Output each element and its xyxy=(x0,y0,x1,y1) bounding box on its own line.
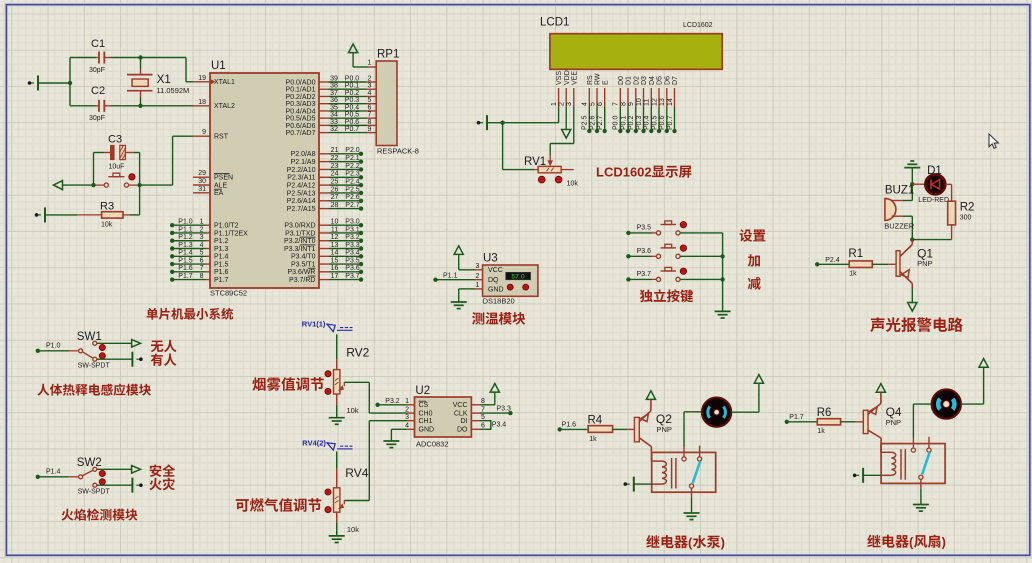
svg-text:P1.7: P1.7 xyxy=(789,414,804,421)
svg-text:19: 19 xyxy=(198,75,206,82)
svg-text:C2: C2 xyxy=(91,85,105,97)
svg-text:XTAL2: XTAL2 xyxy=(214,103,235,110)
svg-text:LED-RED: LED-RED xyxy=(918,197,949,204)
svg-text:BUZ1: BUZ1 xyxy=(885,185,914,197)
svg-text:SW2: SW2 xyxy=(77,457,102,469)
svg-text:3: 3 xyxy=(368,83,372,90)
svg-text:18: 18 xyxy=(198,99,206,106)
svg-text:P3.1/TXD: P3.1/TXD xyxy=(285,230,315,237)
svg-text:P0.2: P0.2 xyxy=(628,115,635,130)
svg-text:1k: 1k xyxy=(817,428,825,435)
svg-text:P1.6: P1.6 xyxy=(178,265,193,272)
svg-text:D7: D7 xyxy=(672,76,679,85)
svg-text:P1.6: P1.6 xyxy=(214,269,229,276)
svg-text:P1.4: P1.4 xyxy=(214,254,229,261)
svg-text:D6: D6 xyxy=(664,76,671,85)
svg-text:P2.3/A11: P2.3/A11 xyxy=(287,175,315,182)
svg-text:10k: 10k xyxy=(101,222,113,229)
svg-text:26: 26 xyxy=(331,186,339,193)
svg-text:4: 4 xyxy=(405,423,409,430)
svg-text:10uF: 10uF xyxy=(109,164,125,171)
svg-text:11: 11 xyxy=(331,226,338,233)
svg-text:P1.0: P1.0 xyxy=(178,219,193,226)
svg-text:CLK: CLK xyxy=(454,411,468,418)
svg-text:5: 5 xyxy=(589,102,596,106)
svg-text:U2: U2 xyxy=(415,385,430,397)
svg-text:9: 9 xyxy=(628,102,635,106)
svg-text:2: 2 xyxy=(368,75,372,82)
svg-text:23: 23 xyxy=(331,163,339,170)
svg-text:R1: R1 xyxy=(848,248,863,260)
svg-text:P2.7/A15: P2.7/A15 xyxy=(287,206,316,213)
svg-text:P0.6/AD6: P0.6/AD6 xyxy=(286,123,316,130)
svg-text:P2.3: P2.3 xyxy=(345,171,360,178)
svg-text:P0.7: P0.7 xyxy=(345,126,360,133)
svg-text:10k: 10k xyxy=(567,181,579,188)
svg-text:28: 28 xyxy=(331,202,339,209)
svg-text:P3.7: P3.7 xyxy=(637,271,652,278)
svg-text:XTAL1: XTAL1 xyxy=(214,79,235,86)
svg-text:P0.4: P0.4 xyxy=(644,115,651,130)
svg-text:13: 13 xyxy=(659,98,666,106)
svg-text:R6: R6 xyxy=(817,407,832,419)
svg-text:P3.6/WR: P3.6/WR xyxy=(287,269,315,276)
svg-text:30pF: 30pF xyxy=(89,67,105,74)
svg-text:29: 29 xyxy=(198,170,206,177)
svg-text:P1.3: P1.3 xyxy=(178,242,193,249)
svg-text:32: 32 xyxy=(330,126,338,133)
svg-text:25: 25 xyxy=(331,179,339,186)
svg-text:30pF: 30pF xyxy=(89,115,105,122)
svg-text:PNP: PNP xyxy=(886,418,901,427)
svg-text:P2.5: P2.5 xyxy=(582,115,589,130)
svg-text:P3.0/RXD: P3.0/RXD xyxy=(284,223,315,230)
svg-text:RV4(2): RV4(2) xyxy=(302,438,326,447)
svg-text:BUZZER: BUZZER xyxy=(884,222,915,231)
svg-text:38: 38 xyxy=(330,83,338,90)
svg-text:P1.1: P1.1 xyxy=(443,273,458,280)
svg-text:8: 8 xyxy=(368,119,372,126)
svg-text:D2: D2 xyxy=(633,76,640,85)
svg-text:2: 2 xyxy=(476,273,480,280)
svg-text:): ) xyxy=(942,535,946,550)
svg-text:35: 35 xyxy=(330,104,338,111)
svg-text:P0.5/AD5: P0.5/AD5 xyxy=(286,116,316,123)
svg-text:P3.4: P3.4 xyxy=(345,250,360,257)
svg-text:3: 3 xyxy=(566,102,573,106)
svg-text:3: 3 xyxy=(405,414,409,421)
svg-text:10: 10 xyxy=(636,98,643,106)
svg-text:P3.2: P3.2 xyxy=(385,398,400,405)
svg-text:21: 21 xyxy=(331,147,339,154)
svg-text:P1.6: P1.6 xyxy=(562,421,577,428)
svg-text:P2.6: P2.6 xyxy=(345,194,360,201)
svg-text:RESPACK-8: RESPACK-8 xyxy=(377,147,419,156)
svg-text:PNP: PNP xyxy=(917,259,932,268)
svg-text:LCD1602: LCD1602 xyxy=(596,165,652,180)
svg-text:P3.1: P3.1 xyxy=(345,226,360,233)
svg-text:P0.6: P0.6 xyxy=(659,115,666,130)
svg-text:2: 2 xyxy=(200,226,204,233)
svg-text:P0.7/AD7: P0.7/AD7 xyxy=(286,130,316,137)
svg-text:P0.1: P0.1 xyxy=(345,83,360,90)
svg-text:P2.7: P2.7 xyxy=(597,115,604,130)
svg-text:3: 3 xyxy=(200,234,204,241)
svg-text:P3.7: P3.7 xyxy=(345,273,360,280)
svg-text:PNP: PNP xyxy=(657,425,672,434)
svg-text:D0: D0 xyxy=(618,76,625,85)
svg-text:P3.6: P3.6 xyxy=(345,265,360,272)
svg-text:P0.2: P0.2 xyxy=(345,90,360,97)
svg-text:VCC: VCC xyxy=(453,402,468,409)
svg-text:CS: CS xyxy=(419,402,429,409)
svg-text:10k: 10k xyxy=(347,406,359,415)
svg-text:P3.4/T0: P3.4/T0 xyxy=(291,254,316,261)
svg-text:6: 6 xyxy=(200,257,204,264)
svg-text:D4: D4 xyxy=(649,76,656,85)
svg-text:(: ( xyxy=(909,535,914,550)
svg-text:(: ( xyxy=(688,535,693,550)
svg-text:5: 5 xyxy=(368,97,372,104)
svg-text:P1.2: P1.2 xyxy=(178,234,193,241)
svg-text:P1.3: P1.3 xyxy=(214,246,229,253)
svg-text:D1: D1 xyxy=(626,76,633,85)
svg-text:14: 14 xyxy=(667,98,674,106)
svg-text:P3.5: P3.5 xyxy=(637,225,652,232)
svg-text:EA: EA xyxy=(214,190,224,197)
svg-text:4: 4 xyxy=(582,102,589,106)
svg-text:P1.7: P1.7 xyxy=(178,273,193,280)
svg-text:13: 13 xyxy=(331,242,339,249)
svg-text:P0.0: P0.0 xyxy=(613,115,620,130)
svg-text:P3.3: P3.3 xyxy=(497,406,512,413)
svg-text:VDD: VDD xyxy=(564,70,571,85)
svg-text:ADC0832: ADC0832 xyxy=(416,439,449,448)
svg-text:RV4: RV4 xyxy=(345,466,368,480)
svg-text:57.0: 57.0 xyxy=(511,274,524,281)
svg-text:SW1: SW1 xyxy=(77,331,102,343)
svg-text:6: 6 xyxy=(597,102,604,106)
svg-text:7: 7 xyxy=(613,102,620,106)
svg-text:U3: U3 xyxy=(483,253,498,265)
svg-text:4: 4 xyxy=(200,242,204,249)
svg-text:P3.7/RD: P3.7/RD xyxy=(289,277,315,284)
svg-text:33: 33 xyxy=(330,119,338,126)
svg-text:1: 1 xyxy=(368,60,372,67)
svg-text:E: E xyxy=(602,80,609,85)
svg-text:GND: GND xyxy=(419,427,435,434)
svg-text:P3.4: P3.4 xyxy=(492,422,507,429)
svg-text:P2.2: P2.2 xyxy=(345,163,360,170)
svg-text:10: 10 xyxy=(331,219,339,226)
svg-text:): ) xyxy=(721,535,725,550)
svg-text:STC89C52: STC89C52 xyxy=(210,289,247,298)
svg-text:24: 24 xyxy=(331,171,339,178)
svg-text:P2.6: P2.6 xyxy=(589,115,596,130)
svg-text:6: 6 xyxy=(368,104,372,111)
svg-text:P0.5: P0.5 xyxy=(345,112,360,119)
svg-text:12: 12 xyxy=(651,98,658,106)
svg-text:P1.5: P1.5 xyxy=(178,257,193,264)
svg-text:RV2: RV2 xyxy=(346,346,369,360)
svg-text:RV1: RV1 xyxy=(524,156,546,168)
svg-text:P3.2/INT0: P3.2/INT0 xyxy=(284,238,316,245)
svg-text:P0.6: P0.6 xyxy=(345,119,360,126)
svg-text:5: 5 xyxy=(481,414,485,421)
svg-text:X1: X1 xyxy=(157,74,171,86)
svg-text:1: 1 xyxy=(476,282,480,289)
svg-text:P2.0/A8: P2.0/A8 xyxy=(291,151,316,158)
svg-text:DI: DI xyxy=(461,418,468,425)
svg-text:C3: C3 xyxy=(108,134,122,146)
svg-text:LCD1602: LCD1602 xyxy=(683,22,713,29)
svg-text:CH0: CH0 xyxy=(419,411,433,418)
svg-text:DQ: DQ xyxy=(488,277,499,284)
svg-text:P0.3: P0.3 xyxy=(345,97,360,104)
svg-text:P2.4: P2.4 xyxy=(345,179,360,186)
svg-text:R3: R3 xyxy=(100,201,114,213)
svg-text:P1.1: P1.1 xyxy=(178,226,193,233)
svg-text:P1.0/T2: P1.0/T2 xyxy=(214,223,239,230)
svg-text:SW-SPDT: SW-SPDT xyxy=(78,363,111,370)
svg-text:1: 1 xyxy=(200,219,204,226)
svg-text:DO: DO xyxy=(457,427,468,434)
svg-text:P1.2: P1.2 xyxy=(214,238,229,245)
svg-text:P2.1: P2.1 xyxy=(345,155,360,162)
svg-text:P0.7: P0.7 xyxy=(667,115,674,130)
svg-text:P3.3: P3.3 xyxy=(345,242,360,249)
svg-text:11.0592M: 11.0592M xyxy=(157,86,190,95)
svg-text:P3.0: P3.0 xyxy=(345,219,360,226)
svg-text:36: 36 xyxy=(330,97,338,104)
svg-text:P2.1/A9: P2.1/A9 xyxy=(291,159,316,166)
svg-text:P1.7: P1.7 xyxy=(214,277,229,284)
svg-text:1: 1 xyxy=(405,398,409,405)
svg-text:P0.4/AD4: P0.4/AD4 xyxy=(286,108,316,115)
svg-text:34: 34 xyxy=(330,112,338,119)
svg-text:RST: RST xyxy=(214,134,229,141)
svg-text:15: 15 xyxy=(331,257,339,264)
svg-text:31: 31 xyxy=(198,186,206,193)
svg-text:P2.0: P2.0 xyxy=(345,147,360,154)
svg-text:P3.5/T1: P3.5/T1 xyxy=(291,261,316,268)
svg-text:PSEN: PSEN xyxy=(214,175,233,182)
svg-text:P0.5: P0.5 xyxy=(651,115,658,130)
svg-text:P1.5: P1.5 xyxy=(214,261,229,268)
svg-text:9: 9 xyxy=(202,129,206,136)
svg-text:14: 14 xyxy=(331,250,339,257)
svg-text:7: 7 xyxy=(481,406,485,413)
svg-text:RP1: RP1 xyxy=(377,49,399,61)
svg-text:R2: R2 xyxy=(960,202,975,214)
svg-text:P2.4/A12: P2.4/A12 xyxy=(287,183,316,190)
svg-text:27: 27 xyxy=(331,194,339,201)
svg-text:2: 2 xyxy=(559,102,566,106)
svg-text:VSS: VSS xyxy=(556,71,563,85)
svg-text:8: 8 xyxy=(481,398,485,405)
svg-text:16: 16 xyxy=(331,265,339,272)
svg-text:P0.4: P0.4 xyxy=(345,104,360,111)
svg-text:1k: 1k xyxy=(589,436,597,443)
svg-text:RW: RW xyxy=(595,73,602,85)
svg-text:D1: D1 xyxy=(927,165,942,177)
svg-text:GND: GND xyxy=(488,286,504,293)
svg-text:VCC: VCC xyxy=(488,267,503,274)
svg-text:VEE: VEE xyxy=(571,71,578,85)
svg-text:P0.1/AD1: P0.1/AD1 xyxy=(286,87,316,94)
svg-text:8: 8 xyxy=(620,102,627,106)
svg-text:P0.0/AD0: P0.0/AD0 xyxy=(286,79,316,86)
svg-text:37: 37 xyxy=(330,90,338,97)
svg-text:39: 39 xyxy=(330,75,338,82)
svg-text:P3.2: P3.2 xyxy=(345,234,360,241)
svg-text:9: 9 xyxy=(368,126,372,133)
svg-text:SW-SPDT: SW-SPDT xyxy=(78,489,111,496)
svg-text:8: 8 xyxy=(200,273,204,280)
svg-text:7: 7 xyxy=(368,112,372,119)
svg-text:DS18B20: DS18B20 xyxy=(483,297,515,306)
svg-text:P2.5: P2.5 xyxy=(345,186,360,193)
svg-text:3: 3 xyxy=(476,263,480,270)
svg-text:P3.3/INT1: P3.3/INT1 xyxy=(284,246,316,253)
svg-text:P2.7: P2.7 xyxy=(345,202,360,209)
svg-text:P0.3/AD3: P0.3/AD3 xyxy=(286,101,316,108)
svg-text:C1: C1 xyxy=(91,38,105,50)
svg-text:30: 30 xyxy=(198,178,206,185)
svg-text:P1.4: P1.4 xyxy=(178,250,193,257)
svg-text:D3: D3 xyxy=(641,76,648,85)
svg-text:11: 11 xyxy=(644,99,651,106)
svg-text:P2.4: P2.4 xyxy=(825,257,840,264)
svg-text:7: 7 xyxy=(200,265,204,272)
svg-text:P1.1/T2EX: P1.1/T2EX xyxy=(214,230,248,237)
svg-text:U1: U1 xyxy=(211,60,226,72)
svg-text:5: 5 xyxy=(200,250,204,257)
svg-text:P0.0: P0.0 xyxy=(345,75,360,82)
svg-text:P2.6/A14: P2.6/A14 xyxy=(287,198,316,205)
svg-text:17: 17 xyxy=(331,273,339,280)
svg-text:10k: 10k xyxy=(347,525,359,534)
svg-text:22: 22 xyxy=(331,155,339,162)
svg-text:RV1(1): RV1(1) xyxy=(302,320,326,329)
svg-text:P3.5: P3.5 xyxy=(345,257,360,264)
svg-text:1: 1 xyxy=(551,102,558,106)
svg-text:12: 12 xyxy=(331,234,339,241)
svg-text:P1.4: P1.4 xyxy=(46,469,61,476)
svg-text:R4: R4 xyxy=(588,415,603,427)
svg-text:1k: 1k xyxy=(849,271,857,278)
svg-text:P2.5/A13: P2.5/A13 xyxy=(287,190,316,197)
svg-text:P2.2/A10: P2.2/A10 xyxy=(287,167,316,174)
svg-text:P3.6: P3.6 xyxy=(637,248,652,255)
svg-text:CH1: CH1 xyxy=(419,418,433,425)
svg-text:6: 6 xyxy=(481,423,485,430)
svg-text:4: 4 xyxy=(368,90,372,97)
svg-text:ALE: ALE xyxy=(214,182,228,189)
svg-text:LCD1: LCD1 xyxy=(540,17,569,29)
svg-text:RS: RS xyxy=(587,75,594,85)
svg-text:D5: D5 xyxy=(657,76,664,85)
svg-text:2: 2 xyxy=(405,406,409,413)
svg-text:P0.3: P0.3 xyxy=(636,115,643,130)
svg-text:P1.0: P1.0 xyxy=(46,343,61,350)
svg-text:300: 300 xyxy=(960,215,972,222)
svg-text:P0.2/AD2: P0.2/AD2 xyxy=(286,94,316,101)
svg-text:P0.1: P0.1 xyxy=(620,115,627,130)
